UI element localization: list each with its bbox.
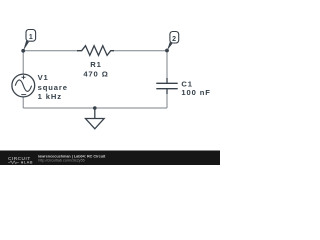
svg-text:square: square [38,83,68,92]
wire bottom rail [23,107,167,109]
junction dot ground [93,106,97,110]
leader node 1 [23,40,29,51]
ground [86,108,105,129]
junction node 1 [21,49,25,53]
node 1 bubble [26,30,36,42]
wire top left (node1 to R1) [23,50,78,52]
wire C1 top lead [166,51,168,83]
resistor R1 [77,46,114,56]
svg-text:100 nF: 100 nF [181,88,210,97]
wire V1 bottom lead [22,97,24,108]
capacitor C1 [156,78,177,94]
svg-text:■LAB: ■LAB [21,159,33,164]
junction node 2 [165,49,169,53]
svg-text:http://circuitlab.com/c9s2y55: http://circuitlab.com/c9s2y55 [38,158,85,162]
source V1 [12,74,35,97]
wire top right (R1 to node2) [112,50,167,52]
svg-text:1 kHz: 1 kHz [38,92,62,101]
svg-text:1: 1 [29,34,33,41]
svg-text:2: 2 [172,36,176,43]
svg-text:R1: R1 [90,60,102,69]
svg-text:V1: V1 [38,73,49,82]
wire C1 bottom lead [166,89,168,108]
footer bar [0,151,220,166]
logo zigzag [8,161,19,164]
leader node 2 [167,42,172,51]
wire V1 top lead [22,51,24,74]
node 2 bubble [170,32,179,44]
svg-text:470 Ω: 470 Ω [83,69,108,78]
